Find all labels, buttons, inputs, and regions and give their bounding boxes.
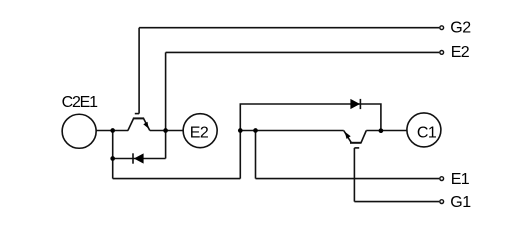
svg-text:E1: E1 <box>451 171 470 188</box>
wire bottom C2E1 bus <box>113 178 241 180</box>
terminal circle C1 <box>407 113 441 147</box>
transistor Q2 body bar <box>133 117 144 119</box>
wire node B to terminal E2 <box>166 51 440 53</box>
transistor Q1 gate riser wire <box>353 148 355 202</box>
wire Q2 emitter to circle E2 <box>150 130 184 132</box>
wire node A vertical down <box>112 131 114 179</box>
node E1 bus junction dot right <box>253 128 258 133</box>
transistor Q1 collector leg <box>361 131 366 143</box>
terminal circle E2 <box>183 114 217 148</box>
transistor Q1 emitter leg <box>344 131 352 143</box>
terminal circle C2E1 <box>62 114 96 148</box>
node E1 bus junction dot left <box>238 128 243 133</box>
wire node B vertical E2-to-D2 <box>165 52 167 158</box>
wire riser to diode D1 <box>240 104 381 179</box>
svg-text:G2: G2 <box>450 20 471 37</box>
terminal G1 open circle <box>440 200 444 204</box>
diode D1 arrow triangle <box>350 99 360 109</box>
terminal E1 open circle <box>440 177 444 181</box>
transistor Q2 gate bar <box>135 113 139 115</box>
transistor Q2 collector leg <box>128 118 134 130</box>
node B junction dot <box>163 128 168 133</box>
svg-text:E2: E2 <box>190 124 209 141</box>
terminal E2 open circle <box>440 51 444 55</box>
transistor Q2 gate riser wire <box>138 28 140 114</box>
wire gate Q1 to terminal G1 <box>354 201 439 203</box>
wire Q1 collector to circle C1 <box>366 130 407 132</box>
svg-text:G1: G1 <box>450 194 471 211</box>
diode D2 arrow triangle <box>134 153 144 163</box>
node A2 junction dot on diode D2 wire <box>110 156 115 161</box>
diode D1 cathode bar <box>359 99 361 109</box>
wire node E1 vertical <box>255 131 257 179</box>
wire node E1 to terminal E1 <box>256 178 440 180</box>
svg-text:C2E1: C2E1 <box>62 94 99 111</box>
transistor Q2 emitter leg <box>144 118 150 130</box>
node A junction dot <box>110 128 115 133</box>
wire main emitter bus to Q1 <box>240 130 343 132</box>
transistor Q2 emitter arrow <box>143 122 148 129</box>
transistor Q1 emitter arrow <box>345 132 351 139</box>
terminal G2 open circle <box>440 26 444 30</box>
diode D2 wire <box>113 158 166 160</box>
transistor Q1 gate bar <box>354 147 359 149</box>
transistor Q1 body bar <box>350 142 362 144</box>
svg-text:E2: E2 <box>451 44 470 61</box>
svg-text:C1: C1 <box>417 124 437 141</box>
wire C2E1 to node A <box>96 130 128 132</box>
wire gate Q2 to terminal G2 <box>139 27 439 29</box>
node C1 junction dot <box>379 128 384 133</box>
diode D2 cathode bar <box>132 153 134 163</box>
